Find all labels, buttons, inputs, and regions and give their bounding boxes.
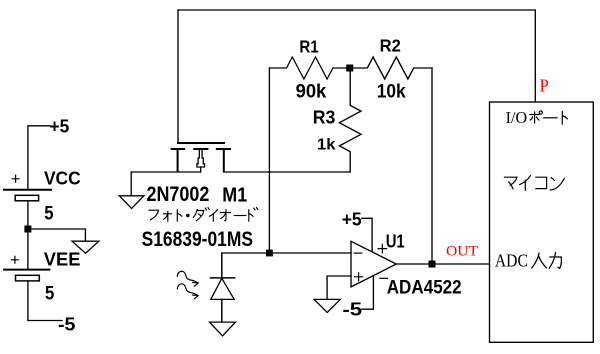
wire gate riser <box>177 10 179 143</box>
node junction dot output <box>429 261 436 268</box>
op-amp supply minus sign <box>380 277 388 279</box>
op-amp plus input sign <box>355 273 363 281</box>
svg-text:5: 5 <box>45 282 54 304</box>
resistor R1 <box>269 57 349 79</box>
ground photodiode anode <box>210 322 236 336</box>
wire -5 to op-amp bottom <box>362 277 373 310</box>
svg-text:+5: +5 <box>50 116 70 137</box>
kanji ADC input mincho <box>532 253 562 269</box>
op-amp U1 triangle <box>351 241 396 287</box>
wire R1 left branch down to inverting input <box>268 68 270 253</box>
op-amp minus input sign <box>354 252 362 254</box>
kana photo-diode gothic <box>149 208 258 221</box>
svg-text:1k: 1k <box>317 137 336 154</box>
svg-text:VEE: VEE <box>44 249 81 269</box>
wire VEE to -5 <box>28 281 62 321</box>
wire mid supply to ground <box>28 229 86 241</box>
svg-text:-5: -5 <box>342 299 362 320</box>
battery VEE <box>4 270 49 281</box>
battery VCC <box>4 190 51 201</box>
wire R2 right branch down to output <box>431 68 433 264</box>
svg-text:OUT: OUT <box>446 244 478 260</box>
svg-text:S16839-01MS: S16839-01MS <box>142 228 253 251</box>
transistor M1 2N7002 <box>172 143 230 171</box>
battery VEE plus sign <box>12 256 19 263</box>
microcontroller box <box>490 102 594 342</box>
ground M1 source <box>130 172 132 196</box>
svg-text:VCC: VCC <box>44 168 81 188</box>
photodiode S16839-01MS <box>211 253 235 322</box>
svg-text:I/O: I/O <box>506 108 527 127</box>
svg-text:M1: M1 <box>222 185 247 207</box>
svg-text:ADC: ADC <box>495 251 528 271</box>
wire VCC to VEE <box>27 201 29 269</box>
wire +5 to op-amp top <box>362 218 372 251</box>
svg-text:+5: +5 <box>342 208 362 229</box>
wire non-inverting input to ground <box>327 276 351 299</box>
svg-text:2N7002: 2N7002 <box>147 183 210 206</box>
svg-text:U1: U1 <box>386 231 405 251</box>
battery VCC plus sign <box>12 175 19 182</box>
svg-text:ADA4522: ADA4522 <box>387 278 462 299</box>
kana I/O port mincho <box>530 111 567 124</box>
resistor R3 <box>339 68 361 172</box>
op-amp supply plus sign <box>378 244 387 253</box>
wire inverting input row <box>222 252 351 254</box>
svg-text:R3: R3 <box>313 106 336 127</box>
svg-text:10k: 10k <box>377 81 406 102</box>
kana microcontroller mincho <box>505 176 565 191</box>
wire +5 supply left <box>28 126 50 189</box>
svg-text:-5: -5 <box>58 314 76 335</box>
node X junction dot R1-R2-R3 <box>346 65 353 72</box>
ground non-inverting input <box>314 299 340 312</box>
svg-text:5: 5 <box>44 203 53 225</box>
ground supply mid <box>72 241 99 253</box>
node junction dot inverting input <box>266 250 273 257</box>
light arrow 2 <box>177 284 197 295</box>
light arrow 1 <box>177 271 197 282</box>
wire top net P <box>178 9 535 11</box>
wire op-amp output row <box>396 263 489 265</box>
svg-text:R1: R1 <box>299 36 319 56</box>
svg-text:R2: R2 <box>380 36 401 56</box>
wire M1 source rail <box>131 171 201 173</box>
svg-text:P: P <box>540 76 549 96</box>
wire P riser to I/O port <box>534 10 536 102</box>
svg-text:90k: 90k <box>296 81 327 102</box>
wire M1 drain rail to R3 bottom <box>224 171 350 173</box>
resistor R2 <box>350 57 432 79</box>
node junction dot supply mid <box>24 226 31 233</box>
